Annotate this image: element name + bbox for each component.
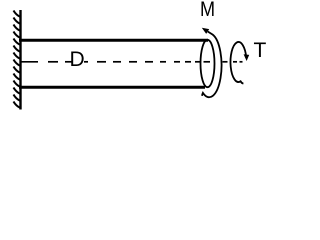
shaft top outline	[19, 39, 208, 42]
wall hatching	[14, 11, 21, 109]
centerline (dashed axis)	[21, 61, 243, 63]
shaft end face ellipse	[201, 40, 215, 87]
M arrowhead	[202, 28, 209, 34]
label D	[70, 49, 85, 70]
torque T curved arrow	[230, 42, 246, 84]
wall (fixed support line)	[19, 10, 21, 110]
label M	[200, 0, 215, 20]
shaft bottom outline	[19, 86, 205, 89]
T arrowhead	[244, 54, 250, 61]
label T	[254, 40, 267, 61]
bending moment M curved arrow	[202, 32, 222, 98]
